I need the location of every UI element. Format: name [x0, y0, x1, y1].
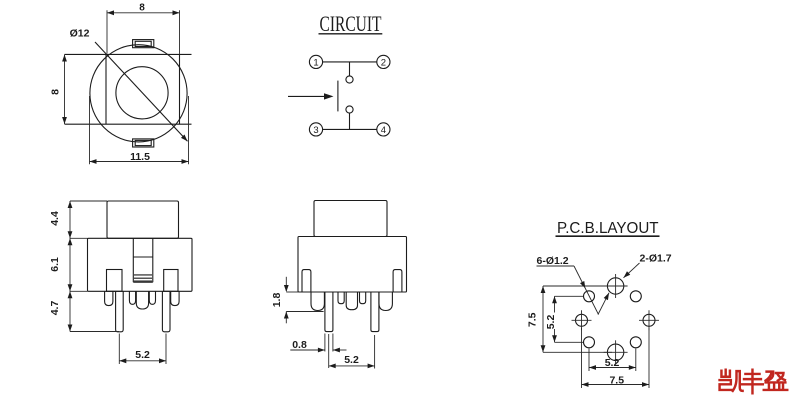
svg-text:4.7: 4.7 [49, 301, 61, 316]
svg-text:2: 2 [381, 57, 386, 68]
svg-text:1.8: 1.8 [271, 293, 283, 308]
svg-text:Ø12: Ø12 [70, 28, 90, 40]
svg-text:7.5: 7.5 [609, 375, 624, 387]
svg-text:3: 3 [313, 125, 318, 136]
svg-text:5.2: 5.2 [135, 349, 150, 361]
svg-text:7.5: 7.5 [527, 312, 539, 327]
svg-text:6.1: 6.1 [49, 257, 61, 272]
svg-text:8: 8 [139, 3, 145, 14]
svg-text:5.2: 5.2 [545, 315, 557, 330]
svg-text:4: 4 [381, 125, 386, 136]
svg-text:6-Ø1.2: 6-Ø1.2 [537, 255, 569, 267]
svg-text:2-Ø1.7: 2-Ø1.7 [640, 252, 672, 264]
svg-text:8: 8 [50, 89, 62, 95]
svg-text:11.5: 11.5 [130, 151, 150, 163]
svg-text:CIRCUIT: CIRCUIT [320, 11, 382, 36]
svg-text:5.2: 5.2 [605, 357, 620, 369]
svg-text:4.4: 4.4 [49, 211, 61, 226]
svg-text:0.8: 0.8 [292, 339, 307, 351]
svg-text:1: 1 [313, 57, 318, 68]
svg-text:5.2: 5.2 [344, 354, 359, 366]
svg-text:P.C.B.LAYOUT: P.C.B.LAYOUT [557, 220, 659, 237]
